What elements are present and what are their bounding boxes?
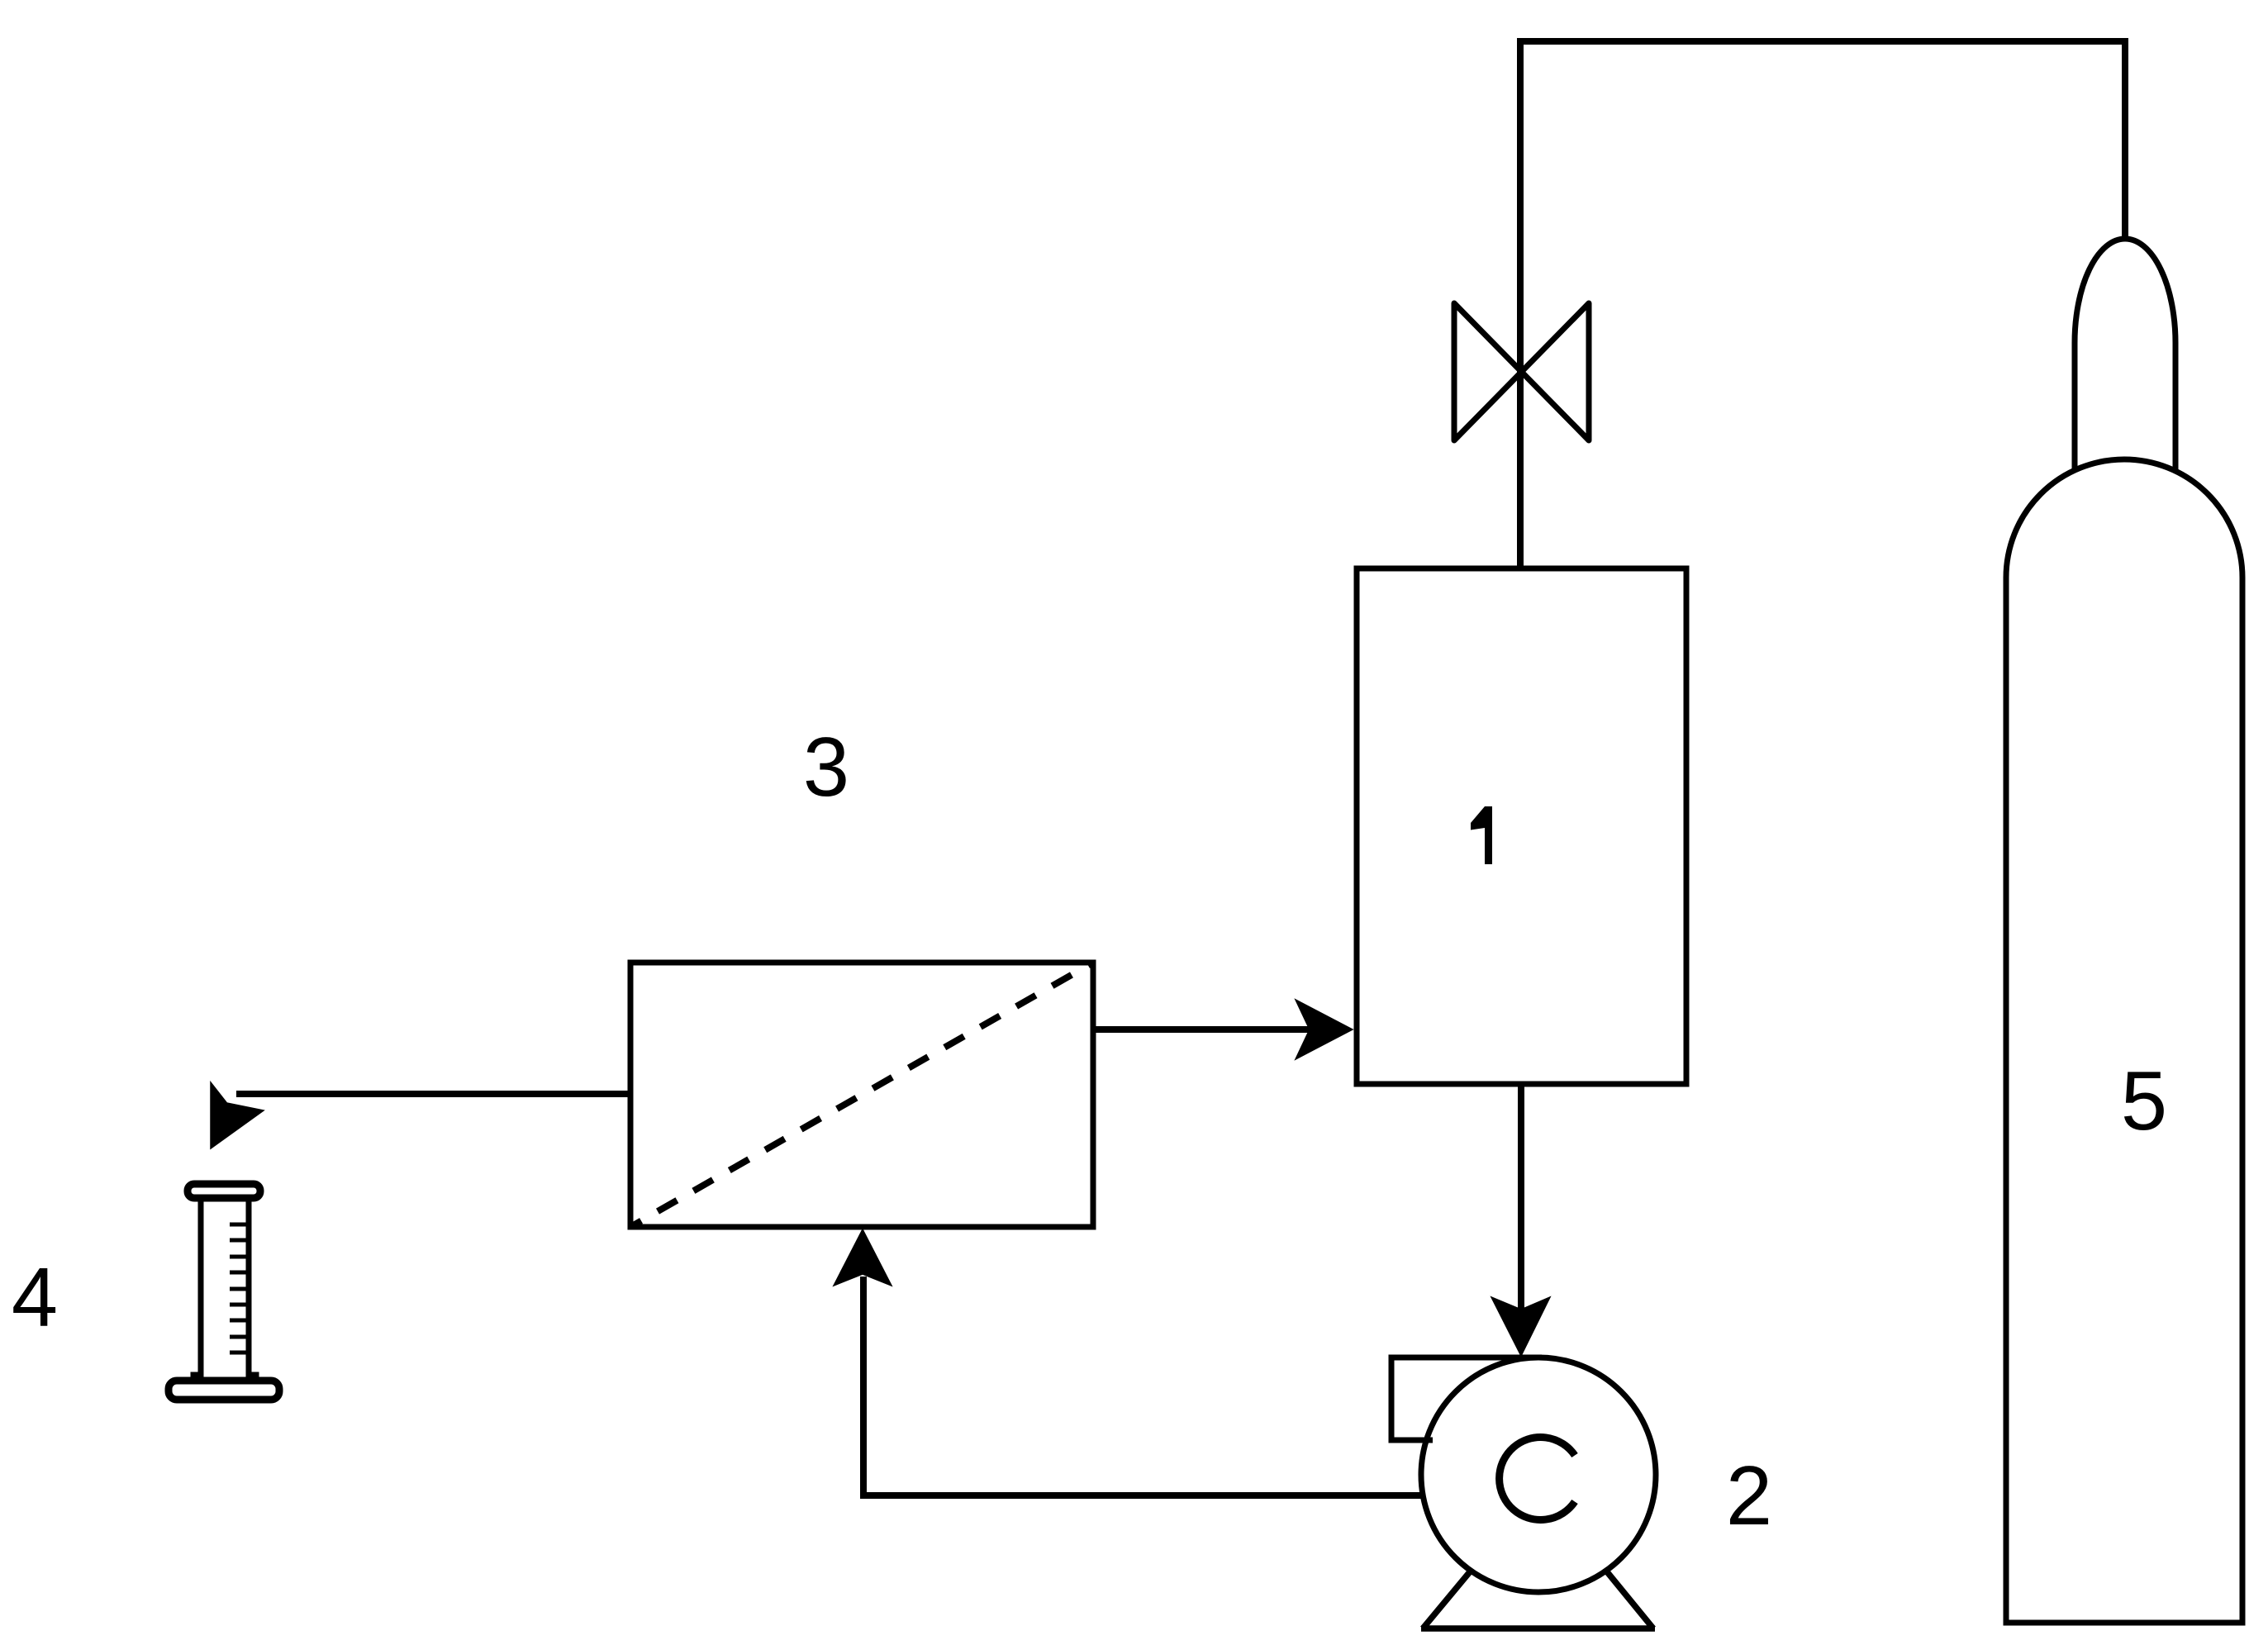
arrowhead into pump — [1491, 1297, 1550, 1356]
arrowhead into membrane bottom — [834, 1229, 892, 1286]
svg-text:5: 5 — [2121, 1055, 2167, 1148]
graduated cylinder 4 rim — [188, 1184, 260, 1198]
arrowhead toward cylinder 4 — [211, 1082, 264, 1148]
label 1 — [1471, 806, 1492, 864]
membrane module 3 — [630, 963, 1093, 1227]
gas cylinder 5 body — [2006, 459, 2242, 1623]
svg-text:3: 3 — [803, 721, 849, 814]
pump 2 scroll — [1391, 1357, 1542, 1440]
pump 2 body circle — [1421, 1357, 1656, 1592]
wire: vessel 1 top to valve to top pipe to gas cylinder 5 — [1520, 41, 2125, 568]
wire: pump 2 to membrane 3 — [863, 1277, 1423, 1495]
pump 2 impeller C — [1500, 1438, 1575, 1520]
svg-text:4: 4 — [12, 1252, 58, 1344]
membrane dashed diagonal — [630, 963, 1093, 1227]
valve — [1454, 303, 1589, 440]
svg-text:2: 2 — [1726, 1450, 1772, 1543]
arrowhead into vessel 1 — [1296, 1000, 1353, 1059]
graduated cylinder 4 body — [193, 1198, 256, 1381]
graduated cylinder 4 foot — [169, 1381, 279, 1400]
wire: membrane 3 to graduated cylinder 4 — [236, 1091, 630, 1097]
wire: membrane 3 to vessel 1 — [1093, 1026, 1310, 1033]
vessel 1 — [1357, 568, 1686, 1084]
gas cylinder 5 neck — [2075, 239, 2175, 470]
pump 2 feet — [1421, 1570, 1655, 1628]
wire: vessel 1 bottom to pump 2 — [1518, 1084, 1524, 1310]
graduated cylinder 4 ticks — [230, 1224, 249, 1353]
